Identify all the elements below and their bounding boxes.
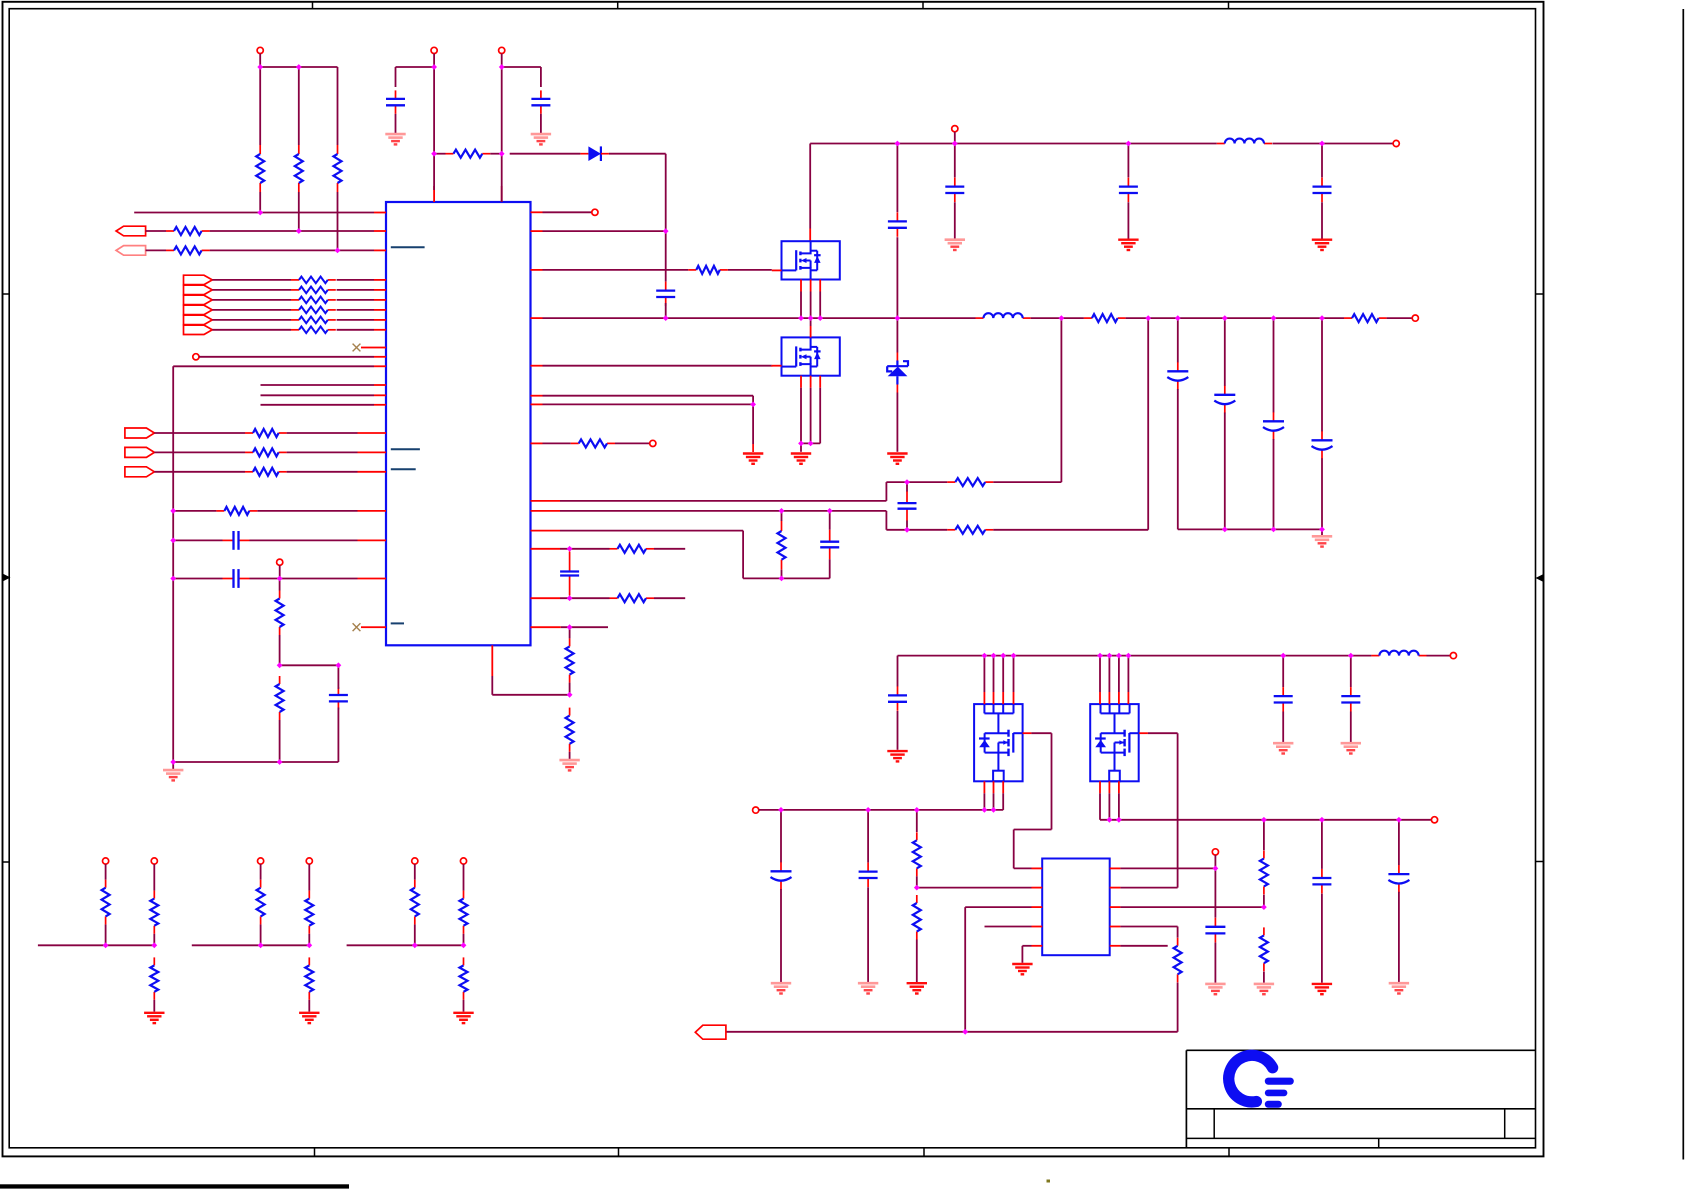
port P4 bbox=[193, 354, 199, 360]
port arrow A6 bbox=[695, 1025, 726, 1039]
capacitor C4 bbox=[223, 569, 250, 588]
wire x1350 cap bbox=[1350, 656, 1352, 687]
resistor R24 divider top bbox=[913, 810, 921, 876]
U1 left pin stubs long bbox=[358, 433, 387, 579]
wire zener bottom bbox=[896, 393, 898, 452]
inductor L1 bbox=[976, 313, 1031, 318]
wire group2 bus bbox=[192, 944, 309, 946]
resistor R23 bbox=[566, 708, 574, 752]
wire group2 right col bbox=[308, 864, 310, 945]
ground x781 salmon bbox=[771, 983, 791, 993]
wire top rail y143 right bbox=[1272, 143, 1393, 145]
resistor R8 bbox=[245, 448, 287, 456]
resistor network RN1 bbox=[291, 277, 336, 334]
wire x1322 gnd bbox=[1321, 202, 1323, 238]
ground cap bank salmon bbox=[1312, 536, 1332, 546]
wire x1322 cap bbox=[1321, 144, 1323, 178]
port arrow A4 bbox=[125, 447, 154, 457]
wire Q2 source bus bbox=[801, 443, 820, 451]
wire R27-R28 bbox=[1263, 895, 1265, 907]
resistor R34 bbox=[305, 957, 313, 999]
resistor R1 bbox=[256, 145, 264, 192]
wire group3 gnd bbox=[463, 1000, 465, 1012]
ground x1350 salmon bbox=[1341, 743, 1361, 753]
port arrow A3 bbox=[125, 428, 154, 438]
ground x916 red bbox=[907, 983, 927, 993]
wire R4 to diode bbox=[490, 153, 580, 155]
wire rail y655 right bbox=[1427, 655, 1451, 657]
capacitor C15 polarized bbox=[1214, 386, 1235, 414]
wire R26 to bus bbox=[965, 983, 1177, 1032]
wire col x1224 lower bbox=[1224, 413, 1226, 530]
U2 left pin stubs bbox=[1032, 868, 1043, 945]
resistor R14 bbox=[1084, 314, 1126, 322]
main IC U1 body bbox=[386, 202, 531, 645]
wire bus to port arrow bbox=[726, 1031, 965, 1033]
port arrow A2 bbox=[116, 246, 146, 256]
wire R1 vertical bbox=[259, 67, 261, 213]
capacitor C2 bracket bbox=[540, 67, 542, 87]
wire x1350 gnd bbox=[1350, 712, 1352, 743]
wire bus y820 bbox=[1100, 819, 1431, 821]
wire bus y810 bbox=[759, 809, 1003, 811]
bottom small mark bbox=[1047, 1180, 1051, 1183]
resistor R28 bbox=[1260, 927, 1268, 982]
Q4 top pin wires bbox=[1100, 656, 1128, 705]
capacitor C20 bbox=[1341, 687, 1360, 711]
wire x897 lower bbox=[896, 237, 898, 318]
wire U1 y366 corner bbox=[173, 366, 374, 762]
port P12 bbox=[753, 807, 759, 813]
wire U1 right y212 to port bbox=[543, 211, 592, 213]
wire rail y318 segment4 bbox=[1387, 317, 1413, 319]
wire col x1273 upper bbox=[1273, 318, 1275, 412]
wire x897 bottom gnd bbox=[897, 711, 899, 750]
resistor R13 bbox=[688, 266, 728, 274]
capacitor C1 bbox=[386, 90, 405, 113]
wire P4 to U1 bbox=[199, 356, 374, 358]
capacitor C17 polarized bbox=[1312, 431, 1333, 459]
capacitor C18 bbox=[888, 686, 907, 710]
wire U2 L5 gnd bbox=[1022, 946, 1031, 963]
ground group2 bbox=[299, 1013, 319, 1023]
wire C9 leads bbox=[0, 0, 1, 1]
wire A4 to U1 bbox=[154, 451, 357, 453]
capacitor C16 polarized bbox=[1263, 412, 1284, 440]
transistor Q3 bbox=[974, 704, 1023, 781]
border center arrow right bbox=[1536, 574, 1544, 582]
capacitor C2 bbox=[531, 90, 550, 113]
wire zener top bbox=[896, 318, 898, 352]
capacitor C1 bracket bbox=[395, 67, 397, 87]
resistor R9 bbox=[245, 468, 287, 476]
wire Q3 gate route bbox=[1014, 733, 1052, 868]
wire U1 y548 bbox=[560, 548, 685, 550]
wire U1 right y231 bbox=[543, 230, 666, 232]
wire rail y318 segment1 bbox=[543, 317, 976, 319]
port arrow A5 bbox=[125, 467, 154, 477]
ground x1322 red bbox=[1312, 240, 1332, 250]
port P6 bbox=[592, 209, 598, 215]
resistor R4 bbox=[446, 150, 491, 158]
wire group1 left col bbox=[105, 864, 107, 945]
ground x1263 salmon bbox=[1254, 984, 1274, 994]
resistor R18 bbox=[947, 526, 993, 534]
Q3 bottom stubs bbox=[984, 781, 1003, 810]
no-connect X2 bbox=[353, 623, 374, 631]
port P10 bbox=[952, 126, 958, 144]
title block bbox=[1186, 1050, 1535, 1148]
port P9 bbox=[1393, 140, 1399, 146]
ground x1128 red bbox=[1118, 240, 1138, 250]
resistor R22 chain bbox=[566, 638, 574, 682]
wire group3 right col bbox=[463, 864, 465, 945]
wire R24 mid bbox=[917, 876, 1032, 887]
transistor Q4 bbox=[1090, 704, 1139, 781]
wire U1 y598 bbox=[560, 597, 685, 599]
wires J1 to U1 bbox=[212, 280, 374, 330]
U1 top pin stubs bbox=[434, 186, 502, 202]
capacitor C23 col x1215 bbox=[1205, 868, 1225, 982]
ground left bus salmon bbox=[163, 762, 183, 780]
port P1 top-left bbox=[257, 47, 263, 53]
wire U1 right y270 gate Q1 bbox=[543, 269, 772, 271]
port P20 bbox=[460, 858, 466, 864]
page right edge line bbox=[1682, 9, 1684, 1160]
port P7 bbox=[1412, 315, 1418, 321]
transistor Q1 bbox=[782, 241, 840, 279]
U1 internal pin name dash 1 bbox=[391, 246, 425, 248]
resistor R27 bbox=[1260, 820, 1268, 895]
inductor L3 bbox=[1371, 651, 1426, 656]
capacitor C24 col x1321 bbox=[1312, 820, 1331, 983]
capacitor C19 bbox=[1274, 687, 1293, 711]
wire x1283 cap bbox=[1282, 656, 1284, 687]
wire U2 R4 route bbox=[1120, 927, 1177, 938]
resistor R32 bbox=[257, 880, 265, 925]
company logo bars bbox=[1265, 1078, 1294, 1108]
wire x954 gnd bbox=[954, 202, 956, 238]
wire D1 to node bbox=[609, 154, 666, 231]
border zone ticks bottom bbox=[315, 1148, 1230, 1157]
wire rail y655 bbox=[898, 655, 1372, 657]
port P14 bbox=[1431, 817, 1437, 823]
wire U1 bottom pin route bbox=[492, 676, 569, 695]
wire col x1322 upper bbox=[1321, 318, 1323, 431]
resistor R6 bbox=[166, 246, 210, 254]
inductor L2 bbox=[1217, 139, 1272, 144]
port P15 bbox=[103, 858, 109, 864]
resistor R29 bbox=[102, 880, 110, 925]
wire stubs y385-405 bbox=[261, 385, 375, 405]
ground x1321 red bbox=[1312, 984, 1332, 994]
wire x897 bottom cap bbox=[897, 656, 899, 687]
U1 right pin stubs long bbox=[531, 501, 561, 598]
port P11 bbox=[1450, 653, 1456, 659]
wire P2-U1 top bbox=[433, 154, 435, 190]
wire col x1322 lower bbox=[1321, 458, 1323, 535]
Q2 bottom stubs bbox=[801, 376, 820, 444]
wire R4 left lead bbox=[434, 153, 445, 155]
wire R12 to bus bbox=[279, 720, 281, 762]
capacitor C12 bbox=[1119, 178, 1138, 202]
wire R11 bbox=[279, 579, 281, 666]
wire U1 right y395-404 bbox=[543, 396, 754, 452]
Q4 bottom stubs bbox=[1100, 781, 1119, 820]
wire U2 R1 bbox=[1120, 867, 1215, 869]
port P3 bbox=[499, 47, 505, 53]
regulator U2 body bbox=[1042, 859, 1110, 956]
port P19 bbox=[412, 858, 418, 864]
wire group2 left col bbox=[260, 864, 262, 945]
wire x897 upper bbox=[896, 144, 898, 213]
Q4 gate stub bbox=[1139, 732, 1148, 734]
ground C1 salmon bbox=[385, 114, 405, 145]
port P8 bbox=[650, 440, 656, 446]
ground x1398 salmon bbox=[1389, 983, 1409, 993]
resistor R25 divider bottom bbox=[913, 895, 921, 982]
wire U2 L3 route bbox=[965, 907, 1031, 1032]
ground x868 salmon bbox=[858, 983, 878, 993]
Q2 gate stub bbox=[772, 365, 782, 368]
wire U1 right y443 bbox=[543, 442, 650, 444]
resistor R15 bbox=[1344, 314, 1387, 322]
ground y452 under x753 red bbox=[743, 454, 763, 464]
U1 internal pin name dash 4 bbox=[391, 622, 404, 624]
wire col x1224 upper bbox=[1224, 318, 1226, 386]
wire x1128 cap bbox=[1127, 144, 1129, 178]
wire group2 gnd bbox=[308, 1000, 310, 1012]
wire col x1177 upper bbox=[1177, 318, 1179, 362]
capacitor C8 bbox=[820, 530, 839, 560]
resistor R21 bbox=[610, 594, 655, 602]
capacitor C25 polarized col x1398 bbox=[1388, 820, 1409, 982]
wire U2 R5 stub bbox=[1120, 945, 1167, 947]
resistor R30 bbox=[150, 891, 158, 934]
wire group1 gnd bbox=[153, 1000, 155, 1012]
wire R22 bbox=[569, 627, 571, 695]
wire Q4 gate route bbox=[1148, 733, 1178, 887]
capacitor C9 bbox=[560, 552, 579, 596]
ground group1 bbox=[144, 1013, 164, 1023]
wire C6 to rail bbox=[665, 303, 667, 318]
wire x1128 gnd bbox=[1127, 202, 1129, 238]
wire P3 node bbox=[502, 54, 541, 203]
wire top rail y143 bbox=[810, 143, 1217, 145]
resistor R7 bbox=[245, 429, 287, 437]
wire group1 right col bbox=[153, 864, 155, 945]
port P17 bbox=[258, 858, 264, 864]
Q2 drain from rail bbox=[810, 318, 812, 337]
resistor R37 bbox=[460, 957, 468, 999]
wire U2 R3 bbox=[1120, 906, 1264, 908]
Q3 top pin wires bbox=[984, 656, 1013, 705]
diode D1 bbox=[580, 146, 609, 161]
resistor R5 bbox=[166, 227, 210, 235]
resistor R19 bbox=[778, 521, 786, 570]
ground Q2 red bbox=[791, 454, 811, 464]
U1 internal pin name dash 2 bbox=[391, 448, 420, 450]
wire R19 top bbox=[781, 511, 783, 521]
wire R3 vertical bbox=[337, 67, 339, 250]
U1 internal pin name dash 3 bbox=[391, 468, 416, 470]
resistor R2 bbox=[295, 145, 303, 192]
wire y511 row bbox=[173, 510, 357, 512]
resistor R31 bbox=[150, 957, 158, 999]
wire net A y501 bbox=[560, 318, 1061, 501]
resistor R16 bbox=[571, 439, 615, 447]
wire col x1177 lower bbox=[1178, 389, 1322, 529]
wire P1 bus top bbox=[260, 54, 337, 68]
resistor R3 bbox=[334, 145, 342, 192]
wire x954 cap bbox=[954, 144, 956, 178]
wire node 665 chain bbox=[665, 231, 667, 281]
wire group1 bus bbox=[38, 944, 154, 946]
wire U2 R2 bbox=[1120, 887, 1177, 889]
connector J1 bus arrows bbox=[184, 275, 213, 334]
ground group3 bbox=[453, 1013, 473, 1023]
resistor R12 bbox=[276, 676, 284, 720]
resistor R10 bbox=[216, 507, 257, 515]
bottom-left scan bar bbox=[0, 1184, 349, 1188]
port P16 bbox=[151, 858, 157, 864]
wire C8 leads bbox=[829, 511, 831, 579]
Q1 bottom stubs bbox=[801, 280, 820, 319]
port P2 bbox=[431, 47, 437, 53]
company logo C swoosh bbox=[1229, 1055, 1273, 1102]
ground x1215 salmon bbox=[1205, 984, 1225, 994]
wire A5 to U1 bbox=[154, 471, 357, 473]
wire P2 node bbox=[396, 54, 435, 154]
wire net B y511 bbox=[560, 318, 1148, 530]
port P18 bbox=[306, 858, 312, 864]
capacitor C14 polarized bbox=[1167, 362, 1188, 390]
capacitor C5 bbox=[329, 687, 348, 709]
wire node 665 bbox=[280, 664, 339, 666]
resistor R35 bbox=[411, 880, 419, 925]
capacitor C7 bbox=[898, 482, 917, 530]
capacitor C11 bbox=[945, 178, 964, 202]
wire U1 y627 bbox=[531, 626, 609, 628]
transistor Q2 bbox=[782, 337, 840, 375]
resistor R26 bbox=[1174, 938, 1182, 983]
ground zener red bbox=[887, 454, 907, 464]
capacitor C3 bbox=[223, 531, 250, 550]
wire U1 right y365 gate Q2 bbox=[543, 365, 772, 367]
wire A1 bbox=[146, 230, 374, 232]
wire C5 bbox=[337, 665, 339, 762]
resistor R11 chain bbox=[276, 591, 284, 636]
wire y578 row bbox=[173, 578, 357, 580]
wire R2 vertical bbox=[298, 67, 300, 231]
U2 right pin stubs bbox=[1110, 868, 1121, 945]
ground x1283 salmon bbox=[1273, 743, 1293, 753]
border zone ticks left bbox=[3, 294, 10, 862]
port P13 bbox=[1212, 849, 1218, 869]
no-connect X1 bbox=[353, 344, 374, 352]
resistor R17 bbox=[947, 478, 993, 486]
wire group3 bus bbox=[347, 944, 464, 946]
wire rail y318 segment2 bbox=[1031, 317, 1084, 319]
resistor R33 bbox=[305, 891, 313, 934]
wire U1 y530 bracket bbox=[560, 531, 830, 579]
ground R23 salmon bbox=[559, 760, 579, 770]
wire rail y318 segment3 bbox=[1126, 317, 1344, 319]
port P5 bbox=[277, 559, 283, 578]
wire gnd bus left bbox=[173, 761, 338, 763]
U1 bottom pin stub bbox=[491, 645, 493, 676]
border zone ticks top bbox=[313, 2, 1229, 9]
wire col x1273 lower bbox=[1273, 439, 1275, 529]
zener Z1 bbox=[887, 353, 908, 393]
ground U2 L5 red bbox=[1012, 964, 1032, 974]
border zone ticks right bbox=[1536, 294, 1544, 862]
ground x897 red bbox=[887, 751, 907, 761]
wire y540 row bbox=[173, 539, 357, 541]
resistor R36 bbox=[460, 891, 468, 934]
wire R19 bottom bbox=[781, 570, 783, 579]
wire R23 bottom bbox=[569, 752, 571, 759]
Q1 gate stub bbox=[772, 269, 782, 271]
wire A3 to U1 bbox=[154, 432, 357, 434]
wire U1 left pin y212 bbox=[134, 212, 374, 214]
U1 left pin stubs bbox=[374, 213, 386, 628]
wire Q1 drain from rail bbox=[809, 144, 811, 242]
wire U2 L4 stub bbox=[985, 926, 1032, 928]
ground C2 salmon bbox=[531, 114, 551, 145]
capacitor C22 col x868 bbox=[859, 810, 878, 982]
capacitor C21 polarized col x781 bbox=[771, 810, 792, 982]
wire group3 left col bbox=[414, 864, 416, 945]
border center arrow left bbox=[3, 574, 11, 582]
capacitor C13 bbox=[1313, 178, 1332, 202]
ground x954 salmon bbox=[945, 240, 965, 250]
port arrow A1 bbox=[116, 226, 146, 236]
capacitor C6 bbox=[656, 282, 675, 306]
wire x1283 gnd bbox=[1282, 712, 1284, 743]
resistor R20 bbox=[610, 545, 655, 553]
wire A2 bbox=[146, 249, 374, 251]
capacitor C10 bbox=[888, 212, 907, 236]
Q3 gate stub bbox=[1023, 732, 1032, 734]
U1 right pin stubs bbox=[531, 212, 543, 443]
